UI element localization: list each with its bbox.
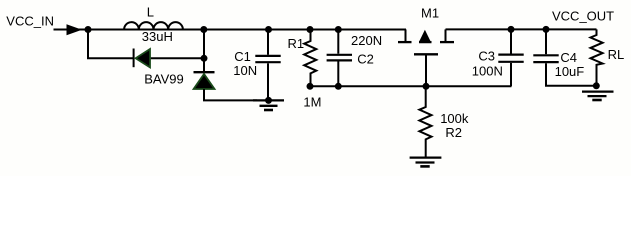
resistor R1 bbox=[304, 30, 316, 87]
diode D2 triangle bbox=[194, 74, 215, 89]
transistor M1 left (drain) lead bbox=[405, 29, 407, 42]
svg-text:M1: M1 bbox=[421, 6, 439, 21]
svg-text:C4: C4 bbox=[560, 50, 577, 65]
capacitor C3 bottom lead bbox=[510, 63, 512, 86]
transistor M1 gate lead bbox=[425, 56, 427, 87]
node junction dot R1 top bbox=[307, 26, 314, 33]
svg-text:10uF: 10uF bbox=[555, 64, 585, 79]
diode D2 cathode bar bbox=[194, 71, 215, 73]
node junction dot C2 top bbox=[335, 26, 342, 33]
wire vertical D2 branch bbox=[203, 30, 205, 72]
node junction dot C3 top bbox=[508, 26, 515, 33]
wire from D1 to D2 bbox=[151, 57, 204, 59]
transistor M1 right (source) lead bbox=[445, 29, 447, 42]
node junction dot at input bbox=[85, 26, 92, 33]
capacitor C3 plates bbox=[498, 53, 523, 55]
svg-text:VCC_IN: VCC_IN bbox=[6, 13, 54, 28]
svg-text:C2: C2 bbox=[357, 52, 374, 67]
capacitor C1 top lead bbox=[267, 30, 269, 55]
node junction dot C2 bottom bbox=[335, 83, 342, 90]
svg-text:100k: 100k bbox=[440, 111, 469, 126]
diode D1 BAV99 cathode bar bbox=[133, 49, 135, 68]
transistor M1 middle contact bar bbox=[419, 41, 432, 43]
ground symbol at R2 bbox=[410, 158, 442, 167]
transistor M1 substrate arrow bbox=[419, 30, 430, 42]
svg-text:BAV99: BAV99 bbox=[144, 72, 184, 87]
wire gate rail bbox=[310, 85, 511, 87]
capacitor C2 top lead bbox=[337, 30, 339, 54]
node junction dot gate/R2 bbox=[423, 83, 430, 90]
transistor M1 right contact bar bbox=[440, 41, 454, 43]
transistor M1 left contact bar bbox=[398, 41, 412, 43]
input arrow bbox=[67, 24, 83, 35]
node junction dot top of D2 bbox=[200, 26, 207, 33]
node junction dot C4 top bbox=[543, 26, 550, 33]
svg-text:1M: 1M bbox=[303, 94, 321, 109]
wire D2 anode to ground rail bbox=[204, 89, 257, 100]
transistor M1 gate bar bbox=[414, 53, 438, 55]
svg-text:RL: RL bbox=[608, 47, 625, 62]
svg-text:100N: 100N bbox=[472, 64, 503, 79]
capacitor C4 bottom lead and wire to ground bbox=[546, 63, 597, 86]
node junction dot C1 top bbox=[265, 26, 272, 33]
node junction dot RL ground bbox=[593, 82, 600, 89]
capacitor C4 top lead bbox=[545, 29, 547, 54]
node junction dot R1 bottom bbox=[307, 83, 314, 90]
svg-text:R1: R1 bbox=[288, 36, 305, 51]
capacitor C2 bottom lead bbox=[337, 62, 339, 87]
ground symbol at C1 bbox=[253, 100, 284, 110]
node junction dot C1 ground bbox=[265, 97, 272, 104]
resistor R2 bbox=[419, 86, 431, 156]
diode D1 BAV99 triangle bbox=[136, 49, 150, 67]
wire top rail left segment bbox=[54, 29, 407, 31]
svg-text:10N: 10N bbox=[233, 63, 257, 78]
svg-text:VCC_OUT: VCC_OUT bbox=[552, 9, 614, 24]
svg-text:33uH: 33uH bbox=[142, 29, 173, 44]
svg-text:L: L bbox=[147, 5, 154, 20]
inductor L bbox=[124, 22, 183, 29]
capacitor C3 top lead bbox=[510, 29, 512, 53]
node junction dot D1/D2 bbox=[201, 55, 208, 62]
capacitor C2 plates bbox=[327, 54, 352, 56]
svg-text:C3: C3 bbox=[478, 49, 495, 64]
svg-text:R2: R2 bbox=[445, 125, 462, 140]
capacitor C1 bottom lead bbox=[267, 63, 269, 100]
ground symbol at RL bbox=[582, 92, 614, 100]
capacitor C1 plates bbox=[255, 55, 280, 57]
wire drop to diode branch bbox=[88, 30, 133, 59]
resistor RL bbox=[591, 29, 603, 85]
capacitor C4 plates bbox=[533, 54, 558, 56]
svg-text:220N: 220N bbox=[351, 33, 382, 48]
wire top rail right segment bbox=[446, 28, 597, 30]
